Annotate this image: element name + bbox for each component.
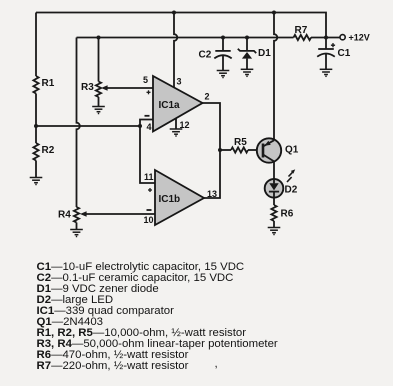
svg-text:R2: R2 (42, 145, 55, 156)
svg-text:R7: R7 (295, 25, 308, 36)
svg-text:13: 13 (207, 189, 217, 199)
svg-text:C2: C2 (199, 50, 212, 61)
svg-text:11: 11 (144, 172, 154, 182)
svg-text:12: 12 (180, 120, 190, 130)
svg-text:R7—220-ohm, ½-watt resistor: R7—220-ohm, ½-watt resistor (37, 360, 189, 372)
svg-text:+12V: +12V (349, 33, 370, 43)
svg-text:IC1b: IC1b (159, 194, 181, 205)
svg-text:,: , (215, 358, 218, 370)
svg-text:2: 2 (205, 92, 210, 102)
svg-text:R6: R6 (281, 209, 294, 220)
svg-text:Q1: Q1 (285, 145, 299, 156)
svg-text:R3: R3 (81, 82, 94, 93)
svg-text:D2: D2 (285, 185, 298, 196)
svg-text:D1: D1 (258, 48, 271, 59)
svg-text:R1: R1 (42, 78, 55, 89)
svg-text:R4: R4 (58, 210, 71, 221)
svg-text:4: 4 (147, 122, 152, 132)
svg-text:R5: R5 (234, 137, 247, 148)
svg-text:10: 10 (144, 215, 154, 225)
svg-text:3: 3 (177, 77, 182, 87)
svg-text:IC1a: IC1a (159, 100, 181, 111)
svg-text:5: 5 (143, 75, 148, 85)
svg-text:C1: C1 (338, 48, 351, 59)
